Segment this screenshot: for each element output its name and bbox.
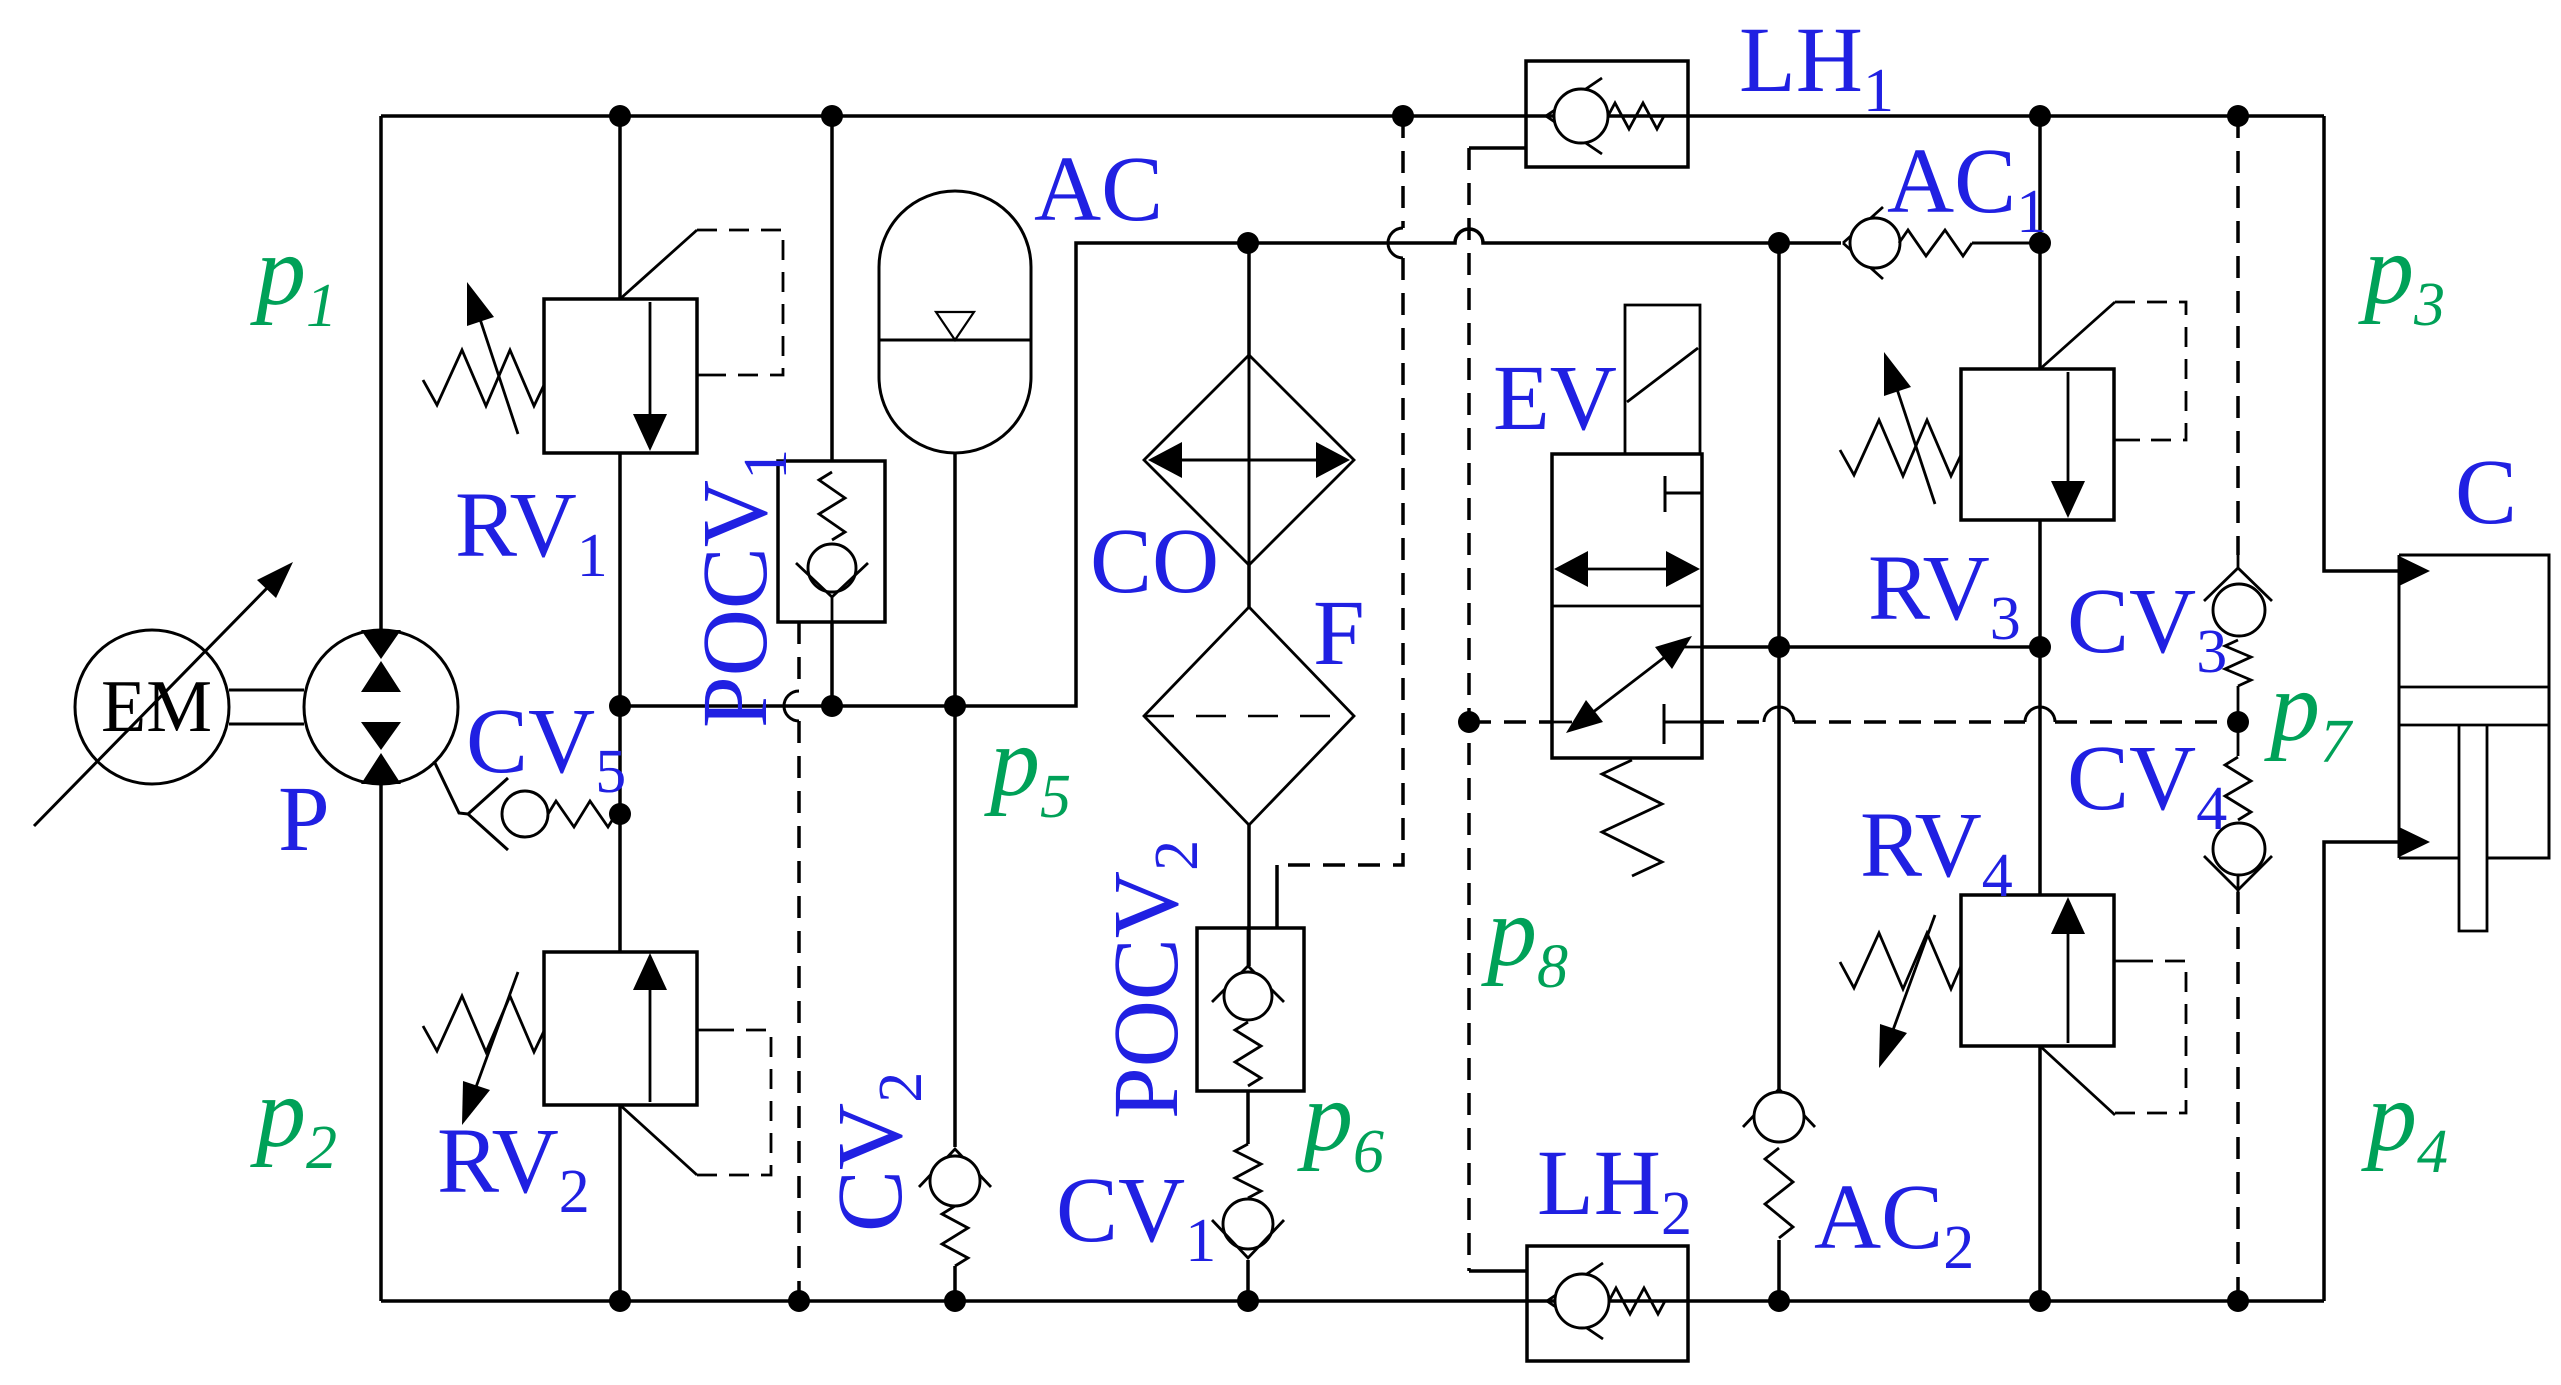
label p4 [2361,1061,2448,1186]
pump shaft [229,690,304,724]
label p6 [1297,1061,1384,1186]
wire RV1-RV2 mid branch [618,453,622,952]
wire left rail upper (pump pressure line) [379,116,383,630]
svg-text:AC: AC [1034,138,1163,241]
svg-text:EM: EM [101,666,212,748]
load holding valve LH1 [1526,61,1688,167]
label EV [1493,347,1617,450]
wire CO to F [1247,565,1251,607]
pilot operated check valve POCV2 [1197,928,1304,1091]
wire RV1 top branch [618,116,622,299]
wire AC2 branch [1777,243,1781,1089]
wire pump to CV5 [434,761,468,814]
accumulator AC [879,191,1031,453]
filter F [1144,607,1354,825]
EV bottom position arrow [1552,636,1702,733]
pilot dashed line LH1 to LH2 (p8 line) [1469,148,1527,1271]
pilot dashed p8 to EV left port [1469,720,1552,724]
wire top rail [381,114,2324,118]
check valve CV1 [1212,1144,1284,1258]
cooler CO [1144,355,1354,565]
label CV2 (rotated) [819,1072,935,1232]
wire EV out to RV3 node y=647 [1702,645,2040,649]
svg-text:CO: CO [1090,510,1219,613]
wire CV2 branch [953,706,957,1147]
svg-text:F: F [1313,582,1365,685]
label p7 [2264,651,2354,776]
label CV5 [466,690,626,806]
label p2 [250,1057,337,1182]
cylinder C body [2399,555,2549,858]
relief valve RV3 box [1961,369,2114,520]
label LH1 [1739,9,1894,125]
wire CV1 to bottom rail [1246,1260,1250,1301]
wire POCV1 top branch [830,116,834,461]
wire p5 bus y=706 rising to p-line y=243 with hop over pilot x=1469 [620,229,1841,706]
electric motor EM [75,630,229,784]
check valve CV4 [2204,722,2272,892]
variable arrow across EM [34,562,293,826]
label RV4 [1860,794,2013,910]
load holding valve LH2 [1527,1246,1688,1361]
RV2 spring [423,996,544,1052]
label AC [1034,138,1163,241]
EV top position arrow [1554,551,1700,587]
check valve CV5 [468,778,620,850]
wire RV3-RV4 branch [2038,520,2042,895]
label p3 [2358,214,2445,339]
wire AC1 to RV3 node [2036,241,2040,245]
wire AC drop line [953,453,957,706]
svg-text:P: P [278,768,330,871]
label F [1313,582,1365,685]
dashed CV3 upper line [2236,116,2240,555]
relief valve RV4 box [1961,895,2114,1046]
wire p3 line to cylinder head side [2324,116,2399,571]
label RV3 [1868,537,2021,653]
relief valve RV1 box [544,299,697,453]
check valve CV3 [2204,555,2272,712]
wire CV2 to bottom rail [953,1266,957,1301]
svg-text:POCV2: POCV2 [1095,840,1211,1119]
check valve CV2 [919,1149,991,1266]
RV3 adjust arrow [1884,352,1935,504]
label AC1 [1887,130,2047,246]
label p5 [984,706,1071,831]
pump P (bidirectional) [304,630,458,784]
label AC2 [1814,1166,1974,1282]
EV top blocked port [1665,476,1702,512]
label LH2 [1537,1132,1692,1248]
RV4 pilot dashed loop [2040,961,2186,1115]
label RV1 [455,474,608,590]
svg-text:POCV1: POCV1 [684,449,800,728]
wire bottom rail [381,1299,2324,1303]
RV1 pilot dashed loop [620,230,783,375]
label C [2455,441,2517,544]
label POCV2 (rotated) [1095,840,1211,1119]
RV3 pilot dashed loop [2040,302,2186,440]
svg-text:EV: EV [1493,347,1617,450]
label p8 [1481,876,1568,1001]
RV4 adjust arrow [1879,915,1935,1068]
RV2 adjust arrow [462,972,518,1125]
cylinder piston rod [2459,725,2487,931]
label RV2 [437,1110,590,1226]
wire RV4 bottom branch [2038,1046,2042,1301]
pilot dashed p7 line (hops over two verticals) [1702,707,2238,722]
EV return spring [1602,760,1662,876]
wire CO branch [1247,243,1251,355]
dashed CV4 lower line [2236,892,2240,1301]
label p1 [250,215,337,340]
wire p4 line to cylinder rod side [2324,842,2399,1301]
pilot operated check valve POCV1 [778,461,885,622]
relief valve RV2 box [544,952,697,1105]
EV valve body [1552,454,1702,758]
label CV1 [1056,1159,1216,1275]
label P [278,768,330,871]
anti-cavitation check AC1 [1843,207,2040,279]
label POCV1 (rotated) [684,449,800,728]
cylinder port arrows [2399,556,2430,857]
label CO [1090,510,1219,613]
wire RV2 bottom branch [618,1105,622,1301]
label CV4 [2067,727,2227,843]
RV2 pilot dashed loop [620,1030,771,1175]
RV1 adjust arrow [467,282,518,434]
wire RV3 top branch [2038,116,2042,369]
RV3 spring [1840,420,1961,476]
wire AC2 to bottom rail [1777,1240,1781,1301]
wire F to POCV2 [1247,825,1251,966]
wire left rail lower (pump suction line) [379,784,383,1301]
wire POCV1 bottom branch [830,622,834,706]
EV solenoid box [1625,305,1700,454]
anti-cavitation check AC2 [1743,1089,1815,1238]
svg-text:C: C [2455,441,2517,544]
EV bottom blocked port [1664,704,1702,744]
RV1 spring [423,350,544,406]
pilot dashed line from top rail to POCV2 (hops over p-line) [1277,116,1403,928]
RV4 spring [1840,933,1961,989]
label CV3 [2067,570,2227,686]
pilot dashed POCV1 drain to bottom rail (hops over p5 bus) [784,622,799,1301]
wire POCV2 to CV1 [1246,1091,1250,1144]
